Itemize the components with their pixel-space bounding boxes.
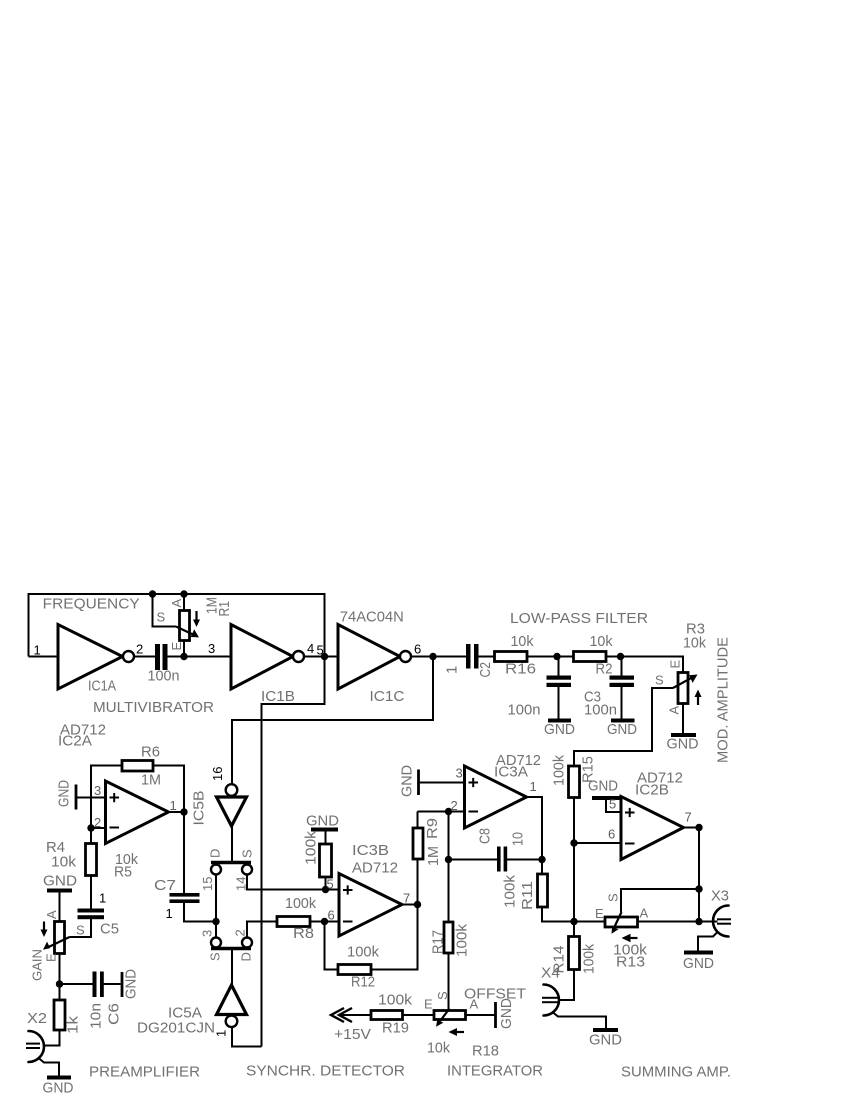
svg-text:S: S	[157, 610, 166, 625]
svg-text:R8: R8	[293, 925, 314, 942]
svg-text:S: S	[435, 991, 450, 1000]
svg-text:R12: R12	[351, 974, 375, 991]
svg-text:GND: GND	[123, 969, 140, 999]
svg-text:SUMMING AMP.: SUMMING AMP.	[621, 1064, 731, 1081]
svg-text:MULTIVIBRATOR: MULTIVIBRATOR	[93, 699, 214, 716]
svg-text:2: 2	[136, 642, 143, 657]
svg-text:1M: 1M	[425, 846, 442, 866]
svg-text:1: 1	[214, 1030, 229, 1037]
svg-text:R11: R11	[519, 881, 536, 910]
svg-text:R5: R5	[114, 864, 132, 881]
svg-text:100n: 100n	[508, 702, 541, 719]
svg-text:S: S	[606, 893, 621, 902]
svg-text:R1: R1	[216, 601, 233, 617]
svg-text:R15: R15	[580, 756, 597, 783]
svg-text:IC5B: IC5B	[191, 791, 208, 826]
svg-text:C2: C2	[477, 662, 494, 678]
svg-text:2: 2	[94, 815, 101, 830]
svg-text:A: A	[640, 906, 649, 921]
svg-text:5: 5	[317, 643, 324, 658]
svg-text:GND: GND	[498, 998, 515, 1029]
svg-text:C5: C5	[100, 921, 119, 938]
svg-text:7: 7	[685, 810, 692, 825]
svg-text:GND: GND	[43, 1080, 74, 1097]
svg-text:1: 1	[530, 779, 537, 794]
svg-text:IC3A: IC3A	[494, 764, 528, 781]
svg-text:D: D	[239, 952, 254, 961]
svg-text:100k: 100k	[347, 944, 379, 961]
svg-text:6: 6	[608, 827, 615, 842]
svg-text:10k: 10k	[427, 1040, 450, 1057]
svg-text:R18: R18	[472, 1043, 499, 1060]
svg-text:DG201CJN: DG201CJN	[137, 1020, 215, 1037]
svg-text:S: S	[76, 923, 85, 938]
svg-text:1k: 1k	[65, 1015, 82, 1034]
svg-text:GND: GND	[667, 736, 699, 753]
svg-text:GND: GND	[683, 955, 714, 972]
svg-text:100n: 100n	[584, 702, 617, 719]
svg-text:A: A	[470, 997, 479, 1012]
svg-text:INTEGRATOR: INTEGRATOR	[447, 1063, 543, 1080]
svg-text:5: 5	[609, 797, 616, 812]
svg-text:6: 6	[328, 908, 335, 923]
svg-text:10k: 10k	[51, 854, 77, 871]
svg-text:1: 1	[444, 666, 461, 674]
svg-text:R2: R2	[596, 661, 613, 678]
svg-text:+15V: +15V	[334, 1026, 371, 1043]
svg-text:GND: GND	[306, 813, 339, 830]
svg-text:PREAMPLIFIER: PREAMPLIFIER	[89, 1064, 200, 1081]
svg-text:IC1B: IC1B	[261, 688, 295, 705]
svg-text:10k: 10k	[683, 635, 706, 652]
svg-text:14: 14	[234, 877, 249, 891]
svg-text:15: 15	[200, 877, 215, 891]
svg-text:IC2B: IC2B	[635, 782, 669, 799]
svg-text:100k: 100k	[378, 992, 413, 1009]
svg-text:C8: C8	[477, 828, 494, 844]
svg-text:1: 1	[166, 906, 173, 921]
svg-text:R13: R13	[616, 954, 645, 971]
svg-text:E: E	[44, 953, 59, 962]
svg-text:R6: R6	[141, 744, 160, 761]
svg-text:1: 1	[34, 643, 41, 658]
svg-text:GND: GND	[399, 765, 416, 797]
svg-text:3: 3	[208, 641, 215, 656]
svg-text:IC1C: IC1C	[370, 688, 405, 705]
svg-text:R19: R19	[382, 1020, 409, 1037]
svg-text:10n: 10n	[88, 1003, 105, 1029]
svg-text:C7: C7	[154, 877, 176, 894]
svg-text:100k: 100k	[303, 830, 320, 865]
svg-text:10k: 10k	[511, 633, 534, 650]
svg-text:C6: C6	[106, 1003, 123, 1025]
svg-text:7: 7	[403, 891, 410, 906]
svg-text:E: E	[169, 642, 184, 651]
svg-text:GND: GND	[589, 1032, 622, 1049]
svg-text:1M: 1M	[141, 772, 161, 789]
svg-text:100n: 100n	[148, 668, 180, 685]
svg-text:IC3B: IC3B	[352, 842, 389, 859]
svg-text:IC1A: IC1A	[88, 678, 116, 695]
svg-text:16: 16	[210, 767, 225, 781]
svg-text:100k: 100k	[454, 923, 471, 957]
svg-text:R16: R16	[505, 661, 536, 678]
svg-text:D: D	[208, 849, 223, 858]
svg-text:A: A	[667, 706, 682, 715]
svg-text:4: 4	[307, 641, 314, 656]
svg-text:100k: 100k	[581, 944, 598, 974]
svg-text:E: E	[424, 997, 433, 1012]
svg-text:100k: 100k	[285, 895, 316, 912]
svg-text:GND: GND	[56, 780, 73, 807]
svg-text:1: 1	[99, 891, 106, 906]
svg-text:GND: GND	[607, 721, 637, 738]
svg-text:2: 2	[451, 798, 458, 813]
svg-text:GND: GND	[43, 873, 77, 890]
svg-text:S: S	[240, 849, 255, 858]
svg-text:A: A	[44, 910, 59, 919]
svg-text:X2: X2	[27, 1010, 47, 1027]
svg-text:R14: R14	[551, 946, 568, 974]
svg-text:S: S	[655, 673, 664, 688]
svg-text:R17: R17	[430, 930, 447, 954]
svg-text:AD712: AD712	[352, 860, 398, 877]
svg-text:LOW-PASS FILTER: LOW-PASS FILTER	[510, 610, 648, 627]
svg-text:E: E	[595, 906, 604, 921]
svg-text:A: A	[169, 599, 184, 608]
svg-text:X3: X3	[711, 888, 729, 905]
svg-text:3: 3	[94, 783, 101, 798]
svg-text:GAIN: GAIN	[30, 949, 45, 981]
svg-text:GND: GND	[544, 721, 575, 738]
svg-text:100k: 100k	[551, 755, 568, 786]
svg-text:R9: R9	[424, 818, 441, 839]
svg-text:3: 3	[456, 766, 463, 781]
svg-text:100k: 100k	[502, 874, 519, 908]
svg-text:5: 5	[327, 877, 334, 892]
svg-text:MOD. AMPLITUDE: MOD. AMPLITUDE	[715, 637, 732, 763]
svg-text:10: 10	[510, 832, 527, 846]
svg-text:E: E	[668, 660, 683, 669]
svg-text:1: 1	[170, 798, 177, 813]
svg-text:2: 2	[233, 929, 248, 936]
svg-text:SYNCHR. DETECTOR: SYNCHR. DETECTOR	[246, 1063, 405, 1080]
svg-text:IC2A: IC2A	[58, 733, 92, 750]
svg-text:10k: 10k	[590, 633, 613, 650]
svg-text:S: S	[208, 952, 223, 961]
svg-text:6: 6	[414, 642, 421, 657]
svg-text:3: 3	[200, 930, 215, 937]
svg-text:74AC04N: 74AC04N	[340, 609, 404, 626]
svg-text:FREQUENCY: FREQUENCY	[43, 596, 140, 613]
